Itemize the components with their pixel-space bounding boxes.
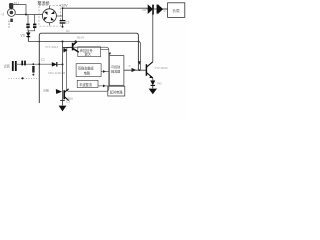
wire trigger output: [124, 69, 146, 71]
ground arrow center: [59, 106, 67, 112]
node gate: [139, 69, 141, 71]
light arrow: [56, 89, 62, 94]
wire SCR anode drop: [152, 9, 154, 62]
svg-text:C3: C3: [66, 99, 70, 103]
node mic line: [38, 63, 40, 65]
node rail left: [62, 7, 64, 9]
capacitor C3: [60, 99, 65, 101]
block C box: [77, 80, 98, 87]
bridge rectifier UR: [42, 6, 56, 26]
wire caps join: [28, 28, 35, 31]
arrow C: [103, 85, 106, 88]
node R1 bottom: [32, 74, 34, 76]
wire to load box: [163, 8, 168, 10]
resistor R1: [32, 66, 34, 73]
node C1 bottom: [62, 26, 64, 28]
svg-text:光敏: 光敏: [43, 88, 49, 93]
wire bias rail y41.5: [28, 42, 140, 71]
arrow into IC: [64, 48, 68, 53]
wire VT2 emitter down: [152, 78, 154, 80]
svg-text:RG: RG: [157, 81, 162, 85]
wire bridge output: [56, 15, 62, 17]
transistor VT2 (SCR driver): [146, 62, 152, 78]
svg-text:整流桥: 整流桥: [38, 0, 50, 6]
svg-text:R2: R2: [66, 29, 70, 33]
capacitor C6: [33, 25, 36, 28]
bridge rectifier dashed box: [39, 6, 61, 27]
svg-text:VT2 3DG6: VT2 3DG6: [155, 66, 169, 70]
diode VD7 down: [151, 81, 155, 89]
node dotted: [21, 77, 23, 79]
capacitor C1: [60, 21, 66, 23]
node VT1 collector: [75, 40, 77, 42]
svg-text:C2: C2: [41, 57, 45, 61]
wire +12V rail: [63, 7, 168, 10]
arrow on bias drop: [138, 61, 141, 65]
svg-text:负载: 负载: [172, 8, 180, 13]
capacitor C2 series: [22, 61, 25, 66]
svg-text:延时电路: 延时电路: [110, 89, 124, 94]
cord dashes: [8, 21, 10, 28]
node J1: [25, 14, 27, 16]
node anode bus: [152, 13, 154, 15]
wire C1 bottom stub: [62, 24, 64, 27]
svg-text:C1: C1: [66, 20, 70, 24]
node bias-gate: [138, 41, 140, 43]
wire drop C5: [27, 15, 29, 24]
wire drop C6: [34, 15, 36, 24]
node diode line: [62, 63, 64, 65]
transistor VT1: [63, 42, 79, 53]
svg-text:可控硅: 可控硅: [111, 64, 120, 69]
wire B to trigger: [101, 71, 109, 73]
plug XP (double circle): [7, 9, 15, 17]
wire diode to bus: [57, 63, 63, 65]
svg-text:触发器: 触发器: [111, 69, 120, 74]
block B box: [76, 64, 101, 77]
wire center bus: [62, 42, 64, 106]
svg-text:~2: ~2: [1, 12, 5, 16]
load box RL: [168, 3, 185, 18]
svg-text:双稳态触发: 双稳态触发: [78, 65, 95, 70]
diode VD5: [148, 5, 153, 14]
node loop-bias cross: [39, 41, 41, 43]
svg-text:+12V: +12V: [59, 3, 68, 7]
svg-text:话筒: 话筒: [4, 64, 10, 69]
ground arrow right: [149, 89, 157, 95]
capacitor C5: [26, 25, 29, 28]
svg-text:半波整流: 半波整流: [79, 82, 93, 87]
wire mic out: [17, 63, 52, 65]
microphone BM: [13, 61, 16, 71]
trigger block box: [109, 56, 124, 86]
diode VD2: [52, 62, 57, 67]
wire C to trigger: [98, 85, 109, 87]
IC block outline: [67, 47, 109, 91]
node R1 top: [32, 63, 34, 65]
svg-text:VD: VD: [20, 33, 25, 37]
block A box: [78, 47, 101, 57]
node rail-zener: [62, 41, 64, 43]
wire A to trigger: [101, 48, 109, 50]
plug lower pin: [10, 19, 13, 22]
svg-text:9014: 9014: [77, 36, 84, 40]
svg-text:放大: 放大: [85, 52, 92, 57]
fuse FU: [10, 4, 13, 10]
wire main AC line: [15, 14, 42, 16]
arrow B: [103, 70, 106, 73]
diode VD6: [157, 5, 162, 14]
wire top from fuse to junction: [11, 4, 26, 15]
phototransistor VT3: [64, 89, 68, 101]
svg-text:电路: 电路: [84, 70, 91, 75]
wire +V riser: [62, 8, 64, 20]
arrow gate: [132, 68, 137, 72]
svg-text:R: R: [129, 64, 131, 68]
wire long loop y33: [39, 33, 138, 103]
block D box: [108, 86, 125, 96]
VT2 emitter arrow: [149, 76, 153, 79]
dotted wire: [9, 77, 40, 79]
arrow A down: [109, 53, 112, 56]
svg-text:VT1 9014: VT1 9014: [45, 45, 58, 49]
zener VD: [26, 31, 30, 42]
